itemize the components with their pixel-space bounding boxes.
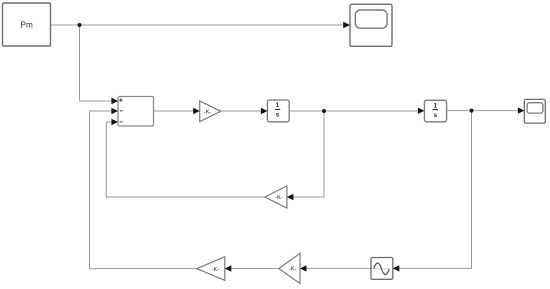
arrowhead into gain K4 [300, 265, 307, 271]
svg-text:-K-: -K- [275, 195, 283, 201]
display block (small scope, right) [524, 99, 545, 123]
arrowhead into integrator I2 [418, 108, 425, 114]
gain block K1 [200, 101, 221, 122]
wire junction A down to sum input 1 [80, 25, 113, 101]
arrowhead into scope [343, 22, 350, 29]
wire integrator I1 to integrator I2 [289, 110, 419, 112]
arrowhead into sine block [393, 265, 400, 271]
scope block (top right) [350, 4, 392, 46]
wire Pm output to Scope [51, 24, 345, 26]
integrator block I1 [267, 100, 289, 122]
svg-text:s: s [434, 112, 438, 119]
svg-text:-K-: -K- [204, 109, 212, 115]
junction C [470, 109, 474, 113]
wire junction B down to feedback gain K2 input [293, 111, 324, 197]
wire integrator I2 to display [447, 110, 519, 112]
arrowhead into display [518, 107, 525, 113]
sum block S1 [118, 97, 154, 127]
arrowhead into gain K2 [287, 194, 294, 200]
wire sum output to gain K1 [154, 110, 195, 112]
wire feedback gain K2 output to sum input 3 [106, 122, 264, 197]
svg-text:1: 1 [276, 102, 280, 109]
source block Pm [3, 3, 51, 46]
wire gain K1 to integrator I1 [221, 110, 262, 112]
junction A [78, 23, 82, 27]
arrowhead into integrator I1 [261, 108, 268, 114]
gain block K3 (bottom left, points left) [197, 257, 225, 281]
svg-text:s: s [276, 112, 280, 119]
arrowhead sum input 3 [111, 119, 118, 126]
wire sine block to gain K4 [306, 267, 372, 269]
svg-text:Pm: Pm [21, 21, 33, 30]
wire gain K3 output to sum input 2 [90, 111, 197, 269]
wire gain K4 to gain K3 [231, 268, 279, 270]
svg-text:-K-: -K- [212, 267, 220, 273]
wire junction C down to sine block input [399, 111, 472, 269]
arrowhead sum input 1 [111, 98, 118, 105]
feedback gain block K2 (points left) [265, 186, 287, 208]
gain block K4 (bottom middle, points left) [279, 253, 300, 283]
junction B [322, 109, 326, 113]
arrowhead into gain K3 [225, 265, 232, 271]
svg-text:-K-: -K- [289, 267, 297, 273]
arrowhead into gain K1 [193, 108, 200, 114]
svg-text:1: 1 [434, 102, 438, 109]
arrowhead sum input 2 [111, 108, 118, 115]
integrator block I2 [424, 100, 446, 122]
sine function block [371, 258, 393, 280]
